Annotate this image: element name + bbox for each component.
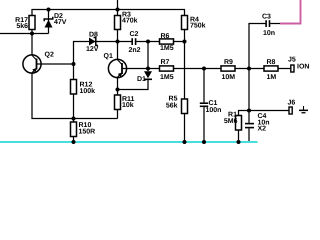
diode D8 bbox=[86, 31, 99, 53]
resistor R4 bbox=[182, 16, 206, 42]
svg-text:D1: D1 bbox=[137, 76, 146, 83]
node R1 on ground bus bbox=[237, 140, 241, 144]
resistor R11 bbox=[115, 95, 135, 119]
svg-text:Q1: Q1 bbox=[104, 53, 113, 60]
svg-text:R9: R9 bbox=[224, 59, 233, 66]
svg-text:R6: R6 bbox=[161, 33, 170, 40]
node top bus / R3 junction bbox=[116, 8, 120, 12]
capacitor C3 bbox=[249, 14, 281, 69]
node top bus / D2 junction bbox=[47, 8, 51, 12]
resistor R5 bbox=[166, 96, 188, 142]
transistor Q1 bbox=[104, 53, 127, 78]
svg-text:R8: R8 bbox=[267, 59, 276, 66]
svg-text:Q2: Q2 bbox=[45, 51, 54, 58]
wire output rail bbox=[239, 111, 290, 116]
wire C2 to R6 bbox=[136, 41, 159, 43]
svg-text:5M6: 5M6 bbox=[224, 118, 238, 125]
capacitor C1 bbox=[200, 69, 222, 143]
svg-text:ION: ION bbox=[297, 63, 309, 70]
svg-text:470k: 470k bbox=[122, 17, 138, 25]
wire emitter node to D1 bottom bbox=[118, 80, 149, 90]
connector J5 bbox=[288, 57, 309, 73]
wire D8 to C2 bbox=[97, 41, 132, 43]
node R10 on ground bus bbox=[72, 140, 76, 144]
svg-text:2n2: 2n2 bbox=[129, 47, 141, 54]
wire R12 bottom bbox=[73, 94, 75, 122]
diode D2 bbox=[44, 10, 67, 34]
wire R4/R6 node down to R5 bbox=[184, 42, 186, 100]
resistor R1 bbox=[224, 112, 242, 142]
svg-text:X2: X2 bbox=[258, 126, 267, 133]
svg-text:12V: 12V bbox=[86, 46, 99, 53]
resistor R7 bbox=[160, 59, 174, 81]
node Q2 base junction bbox=[72, 62, 76, 66]
svg-text:1M5: 1M5 bbox=[160, 45, 174, 52]
node C1 on ground bus bbox=[202, 140, 206, 144]
wire cyan ground bus bbox=[0, 141, 258, 143]
resistor R8 bbox=[264, 59, 278, 81]
svg-text:1M: 1M bbox=[267, 74, 277, 81]
svg-text:C2: C2 bbox=[130, 31, 139, 38]
wire Q1 collector bbox=[117, 42, 119, 61]
svg-text:C3: C3 bbox=[262, 14, 271, 21]
node emitter rail / R12 / R10 junction bbox=[72, 117, 76, 121]
svg-text:1M5: 1M5 bbox=[160, 74, 174, 81]
connector J6 bbox=[288, 100, 296, 115]
diode D1 bbox=[137, 42, 152, 84]
wire Q2 collector bbox=[31, 34, 33, 56]
svg-text:10n: 10n bbox=[263, 30, 275, 37]
capacitor C4 bbox=[245, 111, 270, 143]
svg-text:10M: 10M bbox=[222, 74, 236, 81]
svg-text:750k: 750k bbox=[190, 22, 206, 30]
svg-text:5k6: 5k6 bbox=[16, 22, 28, 30]
wire Q1 base bus bbox=[126, 68, 159, 70]
svg-text:C1: C1 bbox=[209, 100, 218, 107]
node R17/Q2 collector junction bbox=[30, 32, 34, 36]
node Q1 emitter junction bbox=[116, 88, 120, 92]
resistor R6 bbox=[160, 33, 174, 52]
node C1 top junction bbox=[202, 67, 206, 71]
svg-text:100n: 100n bbox=[206, 107, 222, 114]
svg-text:100k: 100k bbox=[80, 87, 96, 95]
capacitor C2 bbox=[129, 31, 141, 54]
resistor R12 bbox=[71, 64, 96, 95]
wire Q2 emitter bbox=[32, 73, 118, 119]
node base bus / D1 junction bbox=[146, 67, 150, 71]
node D1 top junction bbox=[146, 40, 150, 44]
ground bbox=[299, 106, 308, 113]
wire magenta output bbox=[280, 0, 301, 24]
node R3 bottom / Q1 collector bbox=[116, 40, 120, 44]
node C4 top junction bbox=[247, 109, 251, 113]
node C3/C4 branch junction bbox=[247, 67, 251, 71]
wire R9 to R8 bbox=[235, 68, 264, 70]
transistor Q2 bbox=[23, 51, 54, 73]
svg-text:J5: J5 bbox=[288, 57, 296, 64]
resistor R9 bbox=[221, 59, 235, 81]
wire R7 to R9 bbox=[174, 68, 222, 70]
resistor R17 bbox=[15, 16, 35, 31]
svg-text:47V: 47V bbox=[54, 19, 67, 26]
svg-text:56k: 56k bbox=[166, 101, 178, 109]
wire R17 bottom bbox=[31, 30, 33, 34]
wire left rail bbox=[0, 33, 49, 35]
wire R8 to J5 bbox=[278, 68, 291, 70]
wire branch node down to output rail bbox=[248, 69, 250, 111]
wire Q1 emitter bbox=[117, 77, 119, 95]
svg-text:150R: 150R bbox=[79, 128, 96, 135]
wire supply stub up bbox=[117, 0, 119, 10]
wire R6 to R4 node bbox=[174, 41, 185, 43]
node R5 on ground bus bbox=[183, 140, 187, 144]
node R4 bottom junction bbox=[183, 40, 187, 44]
resistor R10 bbox=[71, 122, 96, 142]
svg-text:R7: R7 bbox=[161, 59, 170, 66]
wire base node up to D8 rail bbox=[74, 42, 87, 65]
svg-text:J6: J6 bbox=[288, 100, 296, 107]
svg-text:10k: 10k bbox=[122, 101, 134, 109]
wire Q2 base bbox=[41, 63, 74, 65]
wire top bus bbox=[32, 10, 185, 16]
resistor R3 bbox=[115, 10, 138, 42]
svg-text:D8: D8 bbox=[89, 31, 98, 38]
